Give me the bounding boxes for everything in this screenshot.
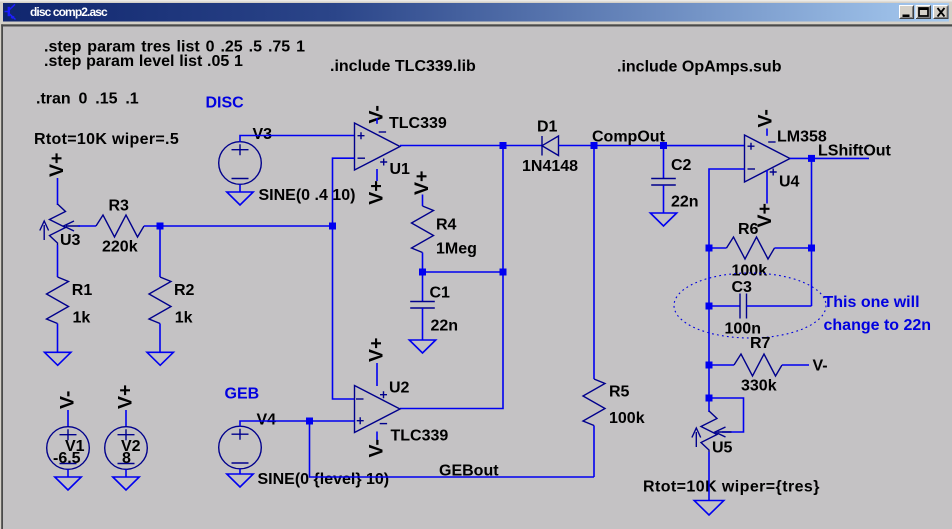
svg-text:disc comp2.asc: disc comp2.asc	[30, 5, 108, 19]
svg-text:CompOut: CompOut	[592, 129, 666, 146]
ground under C2	[650, 213, 676, 226]
svg-text:C2: C2	[671, 157, 692, 174]
svg-text:GEBout: GEBout	[439, 463, 499, 480]
svg-text:-6.5: -6.5	[53, 450, 81, 467]
title icon	[5, 4, 16, 19]
svg-text:DISC: DISC	[206, 95, 245, 112]
junction R4/C1	[419, 269, 426, 276]
svg-text:R1: R1	[72, 282, 93, 299]
resistor R1	[47, 277, 93, 327]
wire C2 node to U4 plus input	[664, 145, 745, 147]
wire V3 to ground	[239, 184, 241, 192]
wire flag to R4	[422, 195, 424, 207]
minimize button	[899, 5, 914, 19]
junction R7 left	[706, 362, 713, 369]
wire R2 to ground	[159, 324, 161, 353]
svg-text:330k: 330k	[741, 378, 777, 395]
voltage source V4	[219, 412, 389, 489]
ground under V1	[55, 477, 81, 490]
wire C1 to ground	[422, 308, 424, 340]
junction R3/R2	[157, 223, 164, 230]
wire C2 to ground	[663, 185, 665, 213]
comparator U1	[355, 115, 447, 178]
flag V+ above U3	[46, 153, 68, 177]
flag V- above U1	[366, 105, 388, 123]
svg-text:V+: V+	[411, 171, 433, 195]
wire U5 wiper loop	[709, 398, 744, 432]
svg-text:220k: 220k	[102, 239, 138, 256]
flag V+ below U4	[754, 203, 776, 227]
svg-text:V+: V+	[366, 180, 388, 204]
wire V4 top to U2 plus input	[240, 421, 355, 426]
svg-text:R7: R7	[750, 335, 771, 352]
dashed ellipse highlight	[674, 273, 826, 338]
voltage source V1	[47, 427, 90, 470]
resistor R3	[96, 198, 144, 256]
svg-text:U1: U1	[390, 161, 411, 178]
svg-text:V-: V-	[755, 109, 777, 127]
svg-text:V3: V3	[253, 126, 273, 143]
svg-text:R2: R2	[174, 282, 195, 299]
wire U2 bottom power	[376, 432, 378, 441]
directive .include OpAmps.sub	[617, 59, 782, 76]
ground under V3	[227, 192, 253, 205]
junction output column at C1 row	[500, 269, 507, 276]
wire V3 top to U1 plus input	[240, 136, 355, 142]
svg-text:U2: U2	[389, 380, 410, 397]
wire U4 minus input to feedback column	[709, 169, 745, 248]
wire flag to V2	[125, 410, 127, 427]
svg-text:1N4148: 1N4148	[522, 158, 578, 175]
wire output column down to U2 output	[400, 146, 503, 409]
svg-text:V-: V-	[57, 391, 79, 409]
wire flag to V1	[67, 410, 69, 427]
ground under R2	[147, 352, 173, 365]
wire CompOut column down to R5	[593, 146, 595, 380]
svg-text:.include TLC339.lib: .include TLC339.lib	[330, 58, 476, 75]
junction C3 left	[706, 303, 713, 310]
comment This one will	[824, 294, 920, 311]
wire node to C1	[422, 272, 424, 302]
directive .include TLC339.lib	[330, 58, 476, 75]
svg-text:R6: R6	[738, 221, 759, 238]
svg-text:100k: 100k	[732, 263, 768, 280]
net label LShiftOut	[818, 143, 892, 160]
ground under C1	[409, 340, 435, 353]
potentiometer U3	[40, 204, 81, 249]
svg-text:U3: U3	[60, 232, 81, 249]
svg-text:GEB: GEB	[225, 386, 260, 403]
ground under V2	[113, 477, 139, 490]
svg-text:1k: 1k	[73, 310, 91, 327]
svg-text:1Meg: 1Meg	[436, 241, 477, 258]
wire U1 minus input	[333, 158, 355, 226]
net label GEBout	[439, 463, 499, 480]
wire V1 to ground	[67, 469, 69, 477]
flag V- above U4	[755, 109, 777, 127]
capacitor C1	[410, 285, 458, 335]
svg-text:R4: R4	[436, 217, 457, 234]
svg-text:R5: R5	[609, 384, 630, 401]
svg-text:.step param level list .05 1: .step param level list .05 1	[44, 53, 243, 70]
wire D1 to CompOut node	[559, 145, 664, 147]
wire R6 left lead	[709, 247, 727, 249]
svg-text:V4: V4	[257, 412, 277, 429]
potentiometer U5	[692, 411, 733, 457]
flag V+ below U1	[366, 180, 388, 204]
voltage source V3	[219, 126, 356, 204]
wire junction to R2	[159, 229, 161, 277]
wire C3 left lead	[709, 305, 740, 307]
client border	[1, 24, 952, 26]
directive .tran	[36, 91, 139, 108]
junction CompOut / R5	[591, 142, 598, 149]
wire U2 top power	[376, 363, 378, 386]
wire R3 to node column	[144, 225, 333, 227]
wire C3 right lead up to R6 right	[747, 305, 812, 307]
svg-text:1k: 1k	[175, 310, 193, 327]
maximize button	[916, 5, 932, 19]
comment Rtot=10K wiper=.5	[34, 131, 179, 148]
wire U1 top power	[376, 118, 378, 124]
resistor R5	[583, 379, 645, 427]
title bar	[3, 3, 949, 22]
svg-text:.tran 0 .15 .1: .tran 0 .15 .1	[36, 91, 139, 108]
wire C1 node to output column	[423, 271, 504, 273]
svg-text:V+: V+	[115, 385, 137, 409]
directive .step tres	[44, 39, 305, 56]
svg-text:V-: V-	[366, 439, 388, 457]
svg-text:C1: C1	[430, 285, 451, 302]
resistor R2	[149, 277, 195, 327]
ground under U5	[694, 501, 724, 516]
svg-text:SINE(0 .4 10): SINE(0 .4 10)	[259, 187, 356, 204]
directive .step level	[44, 53, 243, 70]
net label V- at R7	[813, 358, 828, 375]
op-amp U4	[745, 129, 827, 191]
wire V4 to ground	[239, 469, 241, 474]
junction V4 node	[306, 418, 313, 425]
flag V- above V1	[57, 391, 79, 409]
svg-text:LShiftOut: LShiftOut	[818, 143, 892, 160]
svg-text:100k: 100k	[609, 410, 645, 427]
ground under R1	[45, 352, 71, 365]
wire U3 to R1	[57, 245, 59, 277]
wire R5 to GEBout row	[593, 426, 595, 478]
svg-text:change to 22n: change to 22n	[824, 317, 932, 334]
svg-text:22n: 22n	[431, 318, 459, 335]
junction U4 output	[808, 155, 815, 162]
junction U5 wiper	[706, 395, 713, 402]
wire R1 to ground	[57, 324, 59, 353]
comparator U2	[355, 380, 449, 445]
svg-text:U5: U5	[712, 440, 733, 457]
wire output down to R6 right	[811, 158, 813, 306]
svg-text:This one will: This one will	[824, 294, 920, 311]
svg-text:V-: V-	[813, 358, 828, 375]
svg-text:V+: V+	[46, 153, 68, 177]
ground under V4	[227, 474, 253, 487]
junction main node	[329, 223, 336, 230]
wire GEBout	[310, 421, 595, 477]
wire U4 bottom power	[766, 170, 768, 204]
comment DISC	[206, 95, 245, 112]
resistor R6	[727, 221, 775, 280]
wire R7 right lead	[782, 364, 809, 366]
wire feedback column R6 to C3	[708, 248, 710, 306]
svg-text:Rtot=10K wiper={tres}: Rtot=10K wiper={tres}	[643, 479, 820, 496]
wire feedback column R7 to U5	[708, 365, 710, 412]
wire U4 top power	[766, 129, 768, 136]
junction R6 left	[706, 245, 713, 252]
comment Rtot=10K wiper={tres}	[643, 479, 820, 496]
wire node down to U2 minus input	[333, 226, 355, 399]
wire U1 output	[400, 145, 542, 147]
svg-text:TLC339: TLC339	[389, 115, 447, 132]
flag V+ above V2	[115, 385, 137, 409]
wire V2 to ground	[125, 469, 127, 477]
net label CompOut	[592, 129, 666, 146]
svg-text:Rtot=10K wiper=.5: Rtot=10K wiper=.5	[34, 131, 179, 148]
wire node to C2	[663, 146, 665, 179]
wire U4 output	[790, 157, 869, 159]
resistor R4	[412, 206, 477, 258]
close button	[933, 5, 949, 19]
svg-text:U4: U4	[779, 174, 800, 191]
wire U5 to ground	[708, 452, 710, 501]
wire U1 bottom power	[376, 169, 378, 181]
wire flag to U3	[57, 178, 59, 205]
svg-text:SINE(0 {level} 10): SINE(0 {level} 10)	[258, 471, 390, 488]
wire U3 wiper to R3	[78, 225, 96, 227]
wire feedback column C3 to R7	[708, 306, 710, 365]
resistor R7	[734, 335, 782, 395]
flag V- below U2	[366, 439, 388, 457]
svg-text:V+: V+	[366, 338, 388, 362]
comment GEB	[225, 386, 260, 403]
comment change to 22n	[824, 317, 932, 334]
svg-text:TLC339: TLC339	[391, 428, 449, 445]
junction R6 right	[808, 245, 815, 252]
junction C2	[660, 142, 667, 149]
diode D1	[522, 119, 578, 176]
wire R6 right lead	[775, 247, 812, 249]
svg-text:C3: C3	[732, 279, 753, 296]
svg-text:22n: 22n	[671, 194, 699, 211]
voltage source V2	[105, 427, 148, 470]
flag V+ above U2	[366, 338, 388, 362]
capacitor C2	[651, 157, 698, 211]
svg-text:R3: R3	[109, 198, 130, 215]
svg-text:8: 8	[122, 450, 131, 467]
wire R4 to C1 node	[422, 253, 424, 273]
wire R7 left lead	[709, 364, 734, 366]
svg-text:D1: D1	[537, 119, 558, 136]
junction U1 output	[500, 142, 507, 149]
capacitor C3	[725, 279, 761, 338]
flag V+ above R4	[411, 171, 433, 195]
svg-text:.include OpAmps.sub: .include OpAmps.sub	[617, 59, 782, 76]
